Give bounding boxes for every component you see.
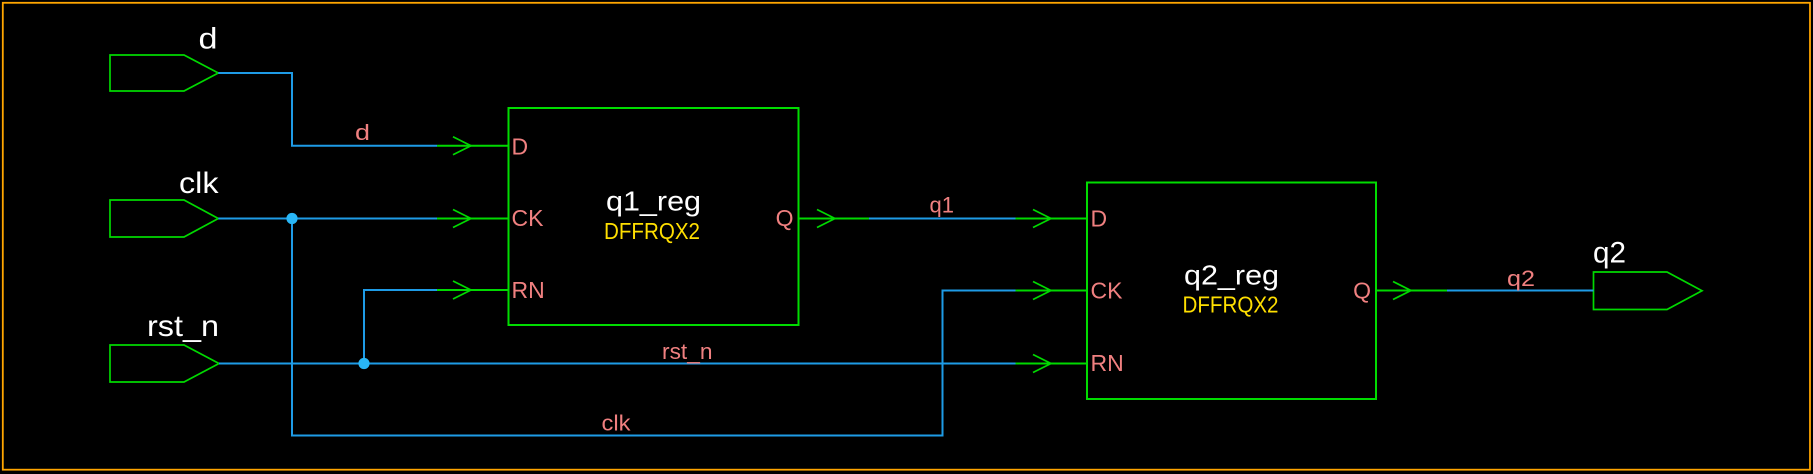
svg-text:Q: Q (1353, 278, 1371, 304)
svg-text:D: D (512, 134, 529, 160)
svg-text:DFFRQX2: DFFRQX2 (1183, 292, 1279, 318)
svg-text:d: d (355, 120, 370, 145)
svg-text:CK: CK (512, 205, 545, 231)
wire net clk (218, 213, 1015, 436)
svg-text:q2_reg: q2_reg (1184, 260, 1279, 291)
svg-text:CK: CK (1091, 278, 1124, 304)
svg-text:rst_n: rst_n (662, 339, 713, 364)
pin D of q2_reg (1016, 206, 1108, 232)
pin Q of q1_reg (776, 205, 869, 231)
svg-text:q1_reg: q1_reg (606, 186, 701, 217)
svg-text:clk: clk (179, 167, 220, 200)
svg-text:RN: RN (1091, 350, 1124, 376)
svg-text:q2: q2 (1507, 266, 1535, 291)
flip-flop q2_reg (DFFRQX2) (1087, 183, 1376, 400)
pin D of q1_reg (437, 134, 528, 160)
pin Q of q2_reg (1353, 278, 1447, 304)
wire net q1 (869, 193, 1016, 219)
pin RN of q2_reg (1016, 350, 1124, 376)
svg-text:Q: Q (776, 205, 794, 231)
svg-text:D: D (1091, 206, 1108, 232)
svg-text:DFFRQX2: DFFRQX2 (604, 218, 700, 244)
input port rst_n (110, 310, 219, 382)
svg-text:clk: clk (602, 411, 632, 436)
svg-text:q1: q1 (930, 193, 955, 218)
wire net q2 (1447, 266, 1594, 291)
output port q2 (1593, 237, 1702, 310)
svg-text:q2: q2 (1593, 237, 1626, 270)
input port d (110, 23, 218, 92)
pin RN of q1_reg (437, 277, 545, 303)
svg-text:d: d (199, 23, 218, 56)
flip-flop q1_reg (DFFRQX2) (509, 108, 799, 325)
wire net d (218, 73, 437, 146)
pin CK of q1_reg (437, 205, 544, 231)
wire net rst_n (219, 290, 1016, 369)
pin CK of q2_reg (1016, 278, 1124, 304)
svg-text:RN: RN (512, 277, 545, 303)
input port clk (110, 167, 220, 237)
svg-text:rst_n: rst_n (147, 310, 219, 343)
